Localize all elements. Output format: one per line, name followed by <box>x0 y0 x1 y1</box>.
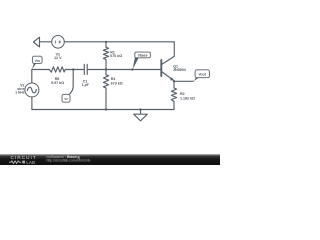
svg-text:1.182 kΩ: 1.182 kΩ <box>180 97 195 101</box>
svg-text:676 kΩ: 676 kΩ <box>110 54 122 58</box>
svg-text:Vin: Vin <box>35 59 40 63</box>
svg-text:http://circuitlab.com/c/bm2vfu: http://circuitlab.com/c/bm2vfu <box>47 159 91 163</box>
svg-text:Vbase: Vbase <box>138 53 148 57</box>
svg-text:673 kΩ: 673 kΩ <box>111 81 123 85</box>
svg-text:1 µF: 1 µF <box>82 83 90 87</box>
svg-text:12 V: 12 V <box>54 56 62 60</box>
svg-text:V2: V2 <box>64 97 68 101</box>
svg-text:R4: R4 <box>111 77 116 81</box>
svg-text:2N3904: 2N3904 <box>173 68 186 72</box>
svg-text:R2: R2 <box>180 92 185 96</box>
svg-text:Vout: Vout <box>199 73 207 77</box>
svg-text:LAB: LAB <box>26 160 35 165</box>
svg-text:1 kHz: 1 kHz <box>15 91 25 95</box>
svg-text:9.97 kΩ: 9.97 kΩ <box>51 81 64 85</box>
